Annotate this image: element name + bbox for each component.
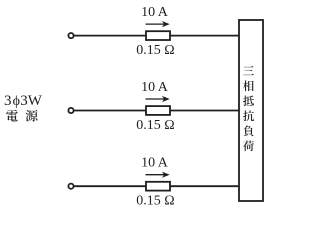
terminal phase B [68,108,73,113]
wire phase A [74,35,241,37]
terminal phase C [68,184,73,189]
current arrow phase B [146,96,170,102]
svg-text:10 A: 10 A [141,80,169,95]
svg-text:0.15 Ω: 0.15 Ω [136,118,174,133]
load box U1 [239,20,263,201]
svg-text:0.15 Ω: 0.15 Ω [136,194,174,209]
source label kanji 電源 [6,110,37,122]
svg-text:3: 3 [4,93,12,109]
svg-text:10 A: 10 A [141,5,169,20]
svg-text:0.15 Ω: 0.15 Ω [136,43,174,58]
svg-text:10 A: 10 A [141,156,169,171]
resistor R1 [146,31,170,40]
wire phase B [74,110,241,112]
wire phase C [74,185,241,187]
svg-text:3W: 3W [20,93,43,109]
load label 三相抵抗負荷 [243,66,254,151]
resistor R2 [146,106,170,115]
terminal phase A [68,33,73,38]
svg-text:ϕ: ϕ [13,94,20,109]
current arrow phase C [146,172,170,178]
current arrow phase A [146,21,170,27]
resistor R3 [146,182,170,191]
